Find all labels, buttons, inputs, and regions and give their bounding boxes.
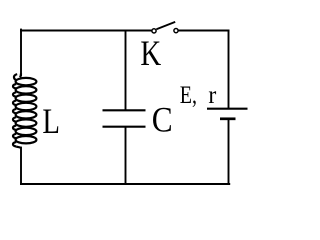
inductor L coil (8 loops) [13,74,36,148]
capacitor C bottom plate [103,126,146,128]
wire: left vertical upper segment down to inductor [20,29,22,76]
switch K lever (open blade) [156,22,175,29]
svg-text:r: r [208,82,216,110]
battery E,r short plate (negative) [220,117,236,120]
svg-text:K: K [140,34,161,74]
wire: top-right horizontal from switch right contact to top-right corner [178,30,229,32]
wire: top-left horizontal from top-left corner to switch left contact [20,30,152,32]
svg-text:E,: E, [180,81,197,109]
wire: bottom horizontal [20,183,230,185]
capacitor C top plate [103,109,146,111]
svg-text:L: L [42,102,60,142]
battery E,r long plate (positive) [207,108,248,110]
switch K left contact circle [152,29,156,33]
switch K right contact circle [174,29,178,33]
wire: middle vertical lower segment from capacitor to bottom wire [125,128,127,185]
wire: right vertical lower segment from battery to bottom-right corner [228,120,230,185]
wire: middle vertical upper segment from top wire junction to capacitor [125,30,127,111]
wire: left vertical lower segment from inductor to bottom-left corner [20,147,22,185]
svg-text:C: C [152,101,173,140]
wire: right vertical upper segment from top-right corner to battery [228,30,230,109]
